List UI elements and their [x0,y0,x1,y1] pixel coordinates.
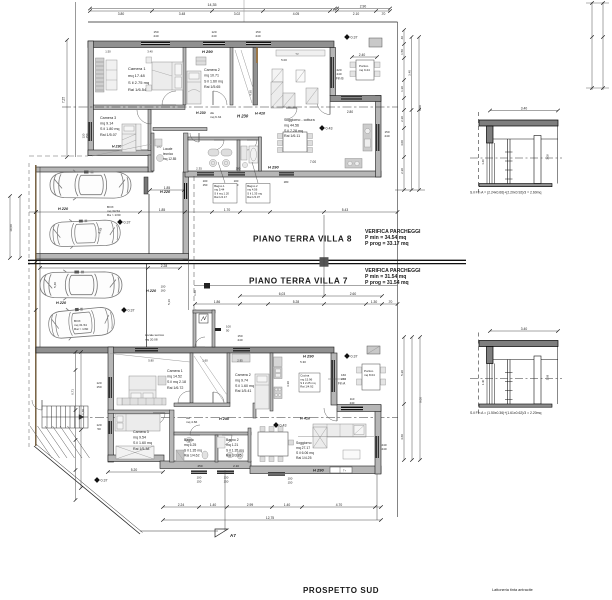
svg-text:250: 250 [197,464,202,468]
svg-text:S il 2.75 mq: S il 2.75 mq [128,80,149,85]
svg-text:S il 6.06 mq: S il 6.06 mq [296,451,314,455]
svg-text:S il 1.60 mq: S il 1.60 mq [133,441,152,445]
svg-text:150: 150 [224,480,229,484]
svg-text:7,25: 7,25 [62,97,66,103]
svg-text:PROSPETTO SUD: PROSPETTO SUD [303,586,379,595]
svg-text:1.70: 1.70 [224,208,231,212]
svg-text:240: 240 [350,401,355,405]
svg-text:S il 1.35 mq: S il 1.35 mq [184,448,202,452]
svg-text:0.37: 0.37 [124,220,131,224]
svg-text:Rai 1/4.25: Rai 1/4.25 [296,456,312,460]
svg-text:Rai 1/6.54: Rai 1/6.54 [128,87,147,92]
svg-text:mq 6.34: mq 6.34 [210,115,221,119]
svg-text:T+: T+ [343,469,347,473]
svg-text:12,75: 12,75 [266,516,274,520]
svg-text:3.08: 3.08 [546,374,550,380]
svg-text:1.60: 1.60 [193,290,197,296]
svg-text:H 230: H 230 [112,145,121,149]
svg-text:10,60: 10,60 [9,224,13,232]
svg-text:150: 150 [85,133,89,138]
svg-text:5.30: 5.30 [300,360,306,364]
svg-text:0.43: 0.43 [280,423,287,427]
svg-text:mq 6.25: mq 6.25 [184,443,196,447]
svg-text:150: 150 [96,385,101,389]
svg-text:Camera 3: Camera 3 [100,116,116,120]
svg-text:Camera 3: Camera 3 [133,430,149,434]
svg-text:mq 9.24: mq 9.24 [359,68,370,72]
svg-text:240: 240 [381,447,386,451]
svg-text:1.50: 1.50 [400,49,404,55]
svg-text:240: 240 [384,134,389,138]
svg-text:S il mq 2.18: S il mq 2.18 [167,380,186,384]
svg-text:Rai 1/6.72: Rai 1/6.72 [167,386,183,390]
svg-text:2.99: 2.99 [247,503,254,507]
svg-text:240: 240 [237,338,242,342]
svg-text:2.28: 2.28 [161,264,168,268]
svg-text:5,40: 5,40 [53,282,57,288]
svg-text:3.40: 3.40 [408,70,412,76]
svg-text:S il 1.35 mq: S il 1.35 mq [226,448,244,452]
svg-text:2.80: 2.80 [347,110,353,114]
svg-text:2.10: 2.10 [353,12,360,16]
svg-text:4.60: 4.60 [400,434,404,440]
svg-text:PIANO TERRA VILLA 7: PIANO TERRA VILLA 7 [249,277,348,286]
svg-text:S il 1.60 mq: S il 1.60 mq [204,79,223,83]
svg-text:180: 180 [236,167,241,171]
svg-text:H 230: H 230 [196,111,206,115]
svg-text:2.30: 2.30 [400,116,404,122]
svg-text:mq 14.52: mq 14.52 [167,375,182,379]
svg-text:Soggiorno: Soggiorno [296,441,312,445]
svg-text:4.70: 4.70 [336,503,343,507]
svg-text:2.24: 2.24 [178,503,185,507]
svg-text:3.80: 3.80 [118,12,125,16]
svg-text:1.60: 1.60 [202,359,208,363]
svg-text:tecnico: tecnico [163,152,173,156]
svg-text:.70: .70 [388,300,393,304]
svg-text:2.60: 2.60 [350,292,357,296]
svg-text:Rai 1/5.38: Rai 1/5.38 [133,447,149,451]
svg-text:150: 150 [288,481,293,485]
svg-text:1.40: 1.40 [481,159,485,165]
svg-text:S il 1.60 mq: S il 1.60 mq [235,384,254,388]
svg-text:H 290: H 290 [202,49,213,54]
svg-text:S.il Fin A = (2.24x0.66)+(2.20: S.il Fin A = (2.24x0.66)+(2.20x0.92)/3 =… [470,191,541,195]
svg-text:Rai 1/4.62: Rai 1/4.62 [184,454,200,458]
svg-text:50: 50 [226,329,230,333]
svg-text:P prog = 31.54 mq: P prog = 31.54 mq [365,280,409,286]
svg-text:mq 1.21: mq 1.21 [226,443,238,447]
svg-text:1.85: 1.85 [159,208,166,212]
svg-text:160: 160 [161,289,166,293]
svg-text:0.37: 0.37 [351,354,358,358]
svg-text:240: 240 [211,34,216,38]
svg-text:Rai 1/3.37: Rai 1/3.37 [247,195,260,199]
svg-text:5.28: 5.28 [293,300,300,304]
svg-text:Bagno 2: Bagno 2 [226,438,239,442]
svg-text:S il 7.28 mq: S il 7.28 mq [284,129,303,133]
svg-text:Locale tecnico: Locale tecnico [145,333,165,337]
svg-text:A7: A7 [230,533,236,538]
svg-text:Camera 2: Camera 2 [204,68,220,72]
svg-text:3.30: 3.30 [286,381,290,387]
svg-text:Rai 1/3.85: Rai 1/3.85 [226,454,242,458]
svg-text:3.40: 3.40 [521,327,528,331]
svg-text:H 220: H 220 [146,289,157,293]
svg-text:mq 27.17: mq 27.17 [296,446,310,450]
svg-text:H 290: H 290 [268,165,279,170]
svg-text:0.37: 0.37 [128,308,135,312]
svg-text:3.02: 3.02 [234,12,241,16]
svg-text:Rai 1/5.41: Rai 1/5.41 [235,389,251,393]
svg-text:PIANO TERRA VILLA 8: PIANO TERRA VILLA 8 [253,235,352,244]
svg-text:Camera 1: Camera 1 [167,369,183,373]
svg-text:1.86: 1.86 [214,300,221,304]
svg-text:Lattoneria tinta antracite: Lattoneria tinta antracite [492,588,533,592]
svg-text:2.35: 2.35 [196,167,202,171]
svg-text:3.40: 3.40 [147,50,153,54]
svg-text:mq 8.04: mq 8.04 [364,373,375,377]
svg-text:mq 12.85: mq 12.85 [163,157,177,161]
svg-text:2.40: 2.40 [359,53,366,57]
svg-text:Camera 2: Camera 2 [235,373,251,377]
svg-text:0.37: 0.37 [351,35,358,39]
svg-text:Rai 1/6.11: Rai 1/6.11 [284,134,300,138]
svg-text:150: 150 [197,480,202,484]
svg-text:mq 17.48: mq 17.48 [128,73,145,78]
svg-text:4.30: 4.30 [249,90,253,96]
svg-text:mq 44.56: mq 44.56 [284,123,299,127]
svg-text:2.10: 2.10 [233,464,239,468]
svg-text:Fin B: Fin B [336,77,343,81]
svg-text:mq 10.71: mq 10.71 [204,74,219,78]
svg-text:5,16: 5,16 [167,299,171,305]
svg-text:0.43: 0.43 [326,126,333,130]
svg-text:Rai 1/5.65: Rai 1/5.65 [204,85,220,89]
svg-text:3.40: 3.40 [521,106,528,110]
svg-text:5.43: 5.43 [342,208,349,212]
svg-text:9.00: 9.00 [419,397,423,403]
svg-text:S.il Fin A = (1.50x0.36)+(1.61: S.il Fin A = (1.50x0.36)+(1.61x0.62)/3 =… [470,411,541,415]
svg-text:0.37: 0.37 [101,478,108,482]
svg-text:6,03: 6,03 [279,292,286,296]
svg-text:14,35: 14,35 [208,3,217,7]
svg-text:H 220: H 220 [58,207,69,211]
svg-text:1.30: 1.30 [400,86,404,92]
svg-text:50: 50 [97,427,101,431]
svg-text:5.20: 5.20 [131,468,138,472]
svg-text:.70: .70 [381,12,386,16]
svg-text:Rai 1/4.17: Rai 1/4.17 [214,195,227,199]
svg-text:1.30: 1.30 [371,300,378,304]
svg-text:H 290: H 290 [303,354,314,359]
svg-text:8.00: 8.00 [418,105,422,111]
svg-text:240: 240 [255,34,260,38]
svg-text:Soggiorno - cottura: Soggiorno - cottura [284,118,315,122]
svg-text:240: 240 [153,34,158,38]
svg-text:1.40: 1.40 [284,503,291,507]
svg-text:H 250: H 250 [219,417,230,421]
svg-text:240: 240 [337,72,342,76]
svg-text:1,70: 1,70 [81,409,85,415]
svg-text:2.90: 2.90 [360,4,367,8]
svg-text:TV: TV [295,52,299,56]
svg-text:H 290: H 290 [313,468,324,473]
svg-text:4.00: 4.00 [400,140,404,146]
svg-text:6,71: 6,71 [71,389,75,395]
svg-text:180: 180 [284,180,289,184]
svg-text:H 410: H 410 [255,112,266,116]
svg-text:S il 1.80 mq: S il 1.80 mq [100,127,119,131]
svg-text:mq 20.08: mq 20.08 [145,338,158,342]
svg-text:.40: .40 [400,36,404,41]
svg-text:P prog = 33.17 mq: P prog = 33.17 mq [365,241,409,247]
svg-text:5.20: 5.20 [400,370,404,376]
svg-text:H 230: H 230 [237,114,249,119]
svg-text:240: 240 [341,377,346,381]
svg-text:H 410: H 410 [300,417,311,421]
svg-text:mq 4.66: mq 4.66 [186,420,197,424]
svg-text:7.00: 7.00 [310,160,316,164]
svg-text:mq 9.74: mq 9.74 [235,378,248,382]
svg-text:Locale: Locale [163,147,173,151]
svg-text:Camera 1: Camera 1 [128,66,146,71]
svg-text:Ra > 1/30: Ra > 1/30 [107,213,121,217]
svg-text:150: 150 [203,183,208,187]
svg-text:2.30: 2.30 [400,168,404,174]
svg-text:5.80: 5.80 [148,359,154,363]
svg-text:3.08: 3.08 [546,154,550,160]
svg-text:H 220: H 220 [160,190,171,194]
svg-text:1.40: 1.40 [481,379,485,385]
svg-text:Rai > 1/30: Rai > 1/30 [74,327,88,331]
svg-text:H 220: H 220 [56,301,67,305]
svg-text:Fin A: Fin A [338,382,346,386]
svg-text:mq 9.54: mq 9.54 [133,436,146,440]
svg-text:3.48: 3.48 [179,12,186,16]
svg-text:1.50: 1.50 [105,50,111,54]
svg-text:mq 9.14: mq 9.14 [100,122,113,126]
svg-text:Rai 1/4.92: Rai 1/4.92 [300,385,314,389]
svg-text:Bagno: Bagno [184,438,194,442]
svg-text:1.40: 1.40 [210,503,217,507]
svg-text:5.00: 5.00 [281,58,287,62]
svg-text:2.95: 2.95 [237,359,243,363]
svg-text:Rai 1/5.07: Rai 1/5.07 [100,133,117,137]
svg-text:4.05: 4.05 [293,12,300,16]
